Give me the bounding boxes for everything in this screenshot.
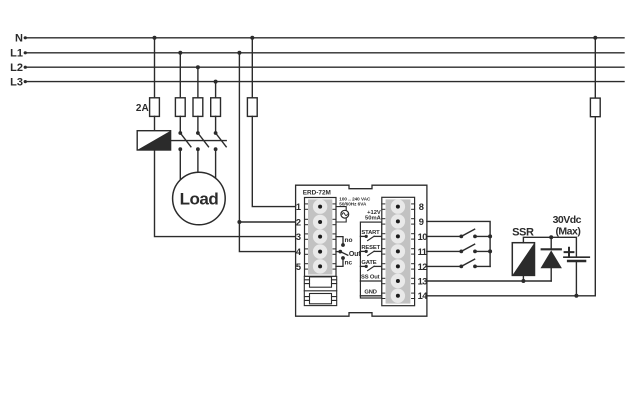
terminal block right xyxy=(382,197,415,305)
fuse F2 xyxy=(175,98,185,117)
node L2 start xyxy=(24,66,27,69)
fuse F6 xyxy=(590,98,600,117)
battery BT1 polarity plus xyxy=(565,248,574,257)
terminal block left xyxy=(305,198,337,277)
svg-text:N: N xyxy=(15,33,23,45)
terminal 9 xyxy=(382,214,415,228)
net L3 wire xyxy=(25,81,625,83)
svg-text:2: 2 xyxy=(296,217,301,227)
node L3 start xyxy=(24,80,27,83)
wire fuse F3 to contact 2 xyxy=(197,116,199,133)
input START switch xyxy=(360,235,381,241)
svg-text:9: 9 xyxy=(419,217,424,227)
svg-text:SS Out: SS Out xyxy=(361,275,380,281)
node junction bus S1 xyxy=(488,234,492,238)
terminal 13 xyxy=(382,274,415,288)
module U1 ERD-72M outline xyxy=(296,185,427,316)
wire L1 to fuse F2 xyxy=(179,53,181,98)
wire fuse F4 to contact 3 xyxy=(215,116,217,133)
wire terminal 9 to switch bus xyxy=(427,221,490,266)
control input box xyxy=(360,222,381,298)
svg-text:10: 10 xyxy=(418,232,428,242)
node junction L2 pole 2 xyxy=(196,65,200,69)
terminal 5 xyxy=(305,259,337,273)
node junction diode top xyxy=(549,235,553,239)
fuse F4 xyxy=(211,98,221,117)
svg-text:11: 11 xyxy=(418,247,427,257)
wire L3 to fuse F4 xyxy=(215,82,217,98)
svg-text:50mA: 50mA xyxy=(365,215,382,221)
terminal 10 xyxy=(382,229,415,243)
relay pole node xyxy=(338,250,342,254)
terminal 11 xyxy=(382,244,415,258)
terminal 4 xyxy=(305,244,337,258)
GND wire xyxy=(360,295,381,297)
contactor K1 linkage xyxy=(171,140,227,142)
svg-text:nc: nc xyxy=(345,259,353,266)
terminal 2 xyxy=(305,215,337,229)
node junction L3 pole 3 xyxy=(214,80,218,84)
input GATE switch xyxy=(360,265,381,271)
svg-text:ERD-72M: ERD-72M xyxy=(303,189,331,196)
output SS Out wire xyxy=(360,280,381,282)
wire fuse F2 to contact 1 xyxy=(179,116,181,133)
svg-text:RESET: RESET xyxy=(361,245,380,251)
svg-text:4: 4 xyxy=(296,247,302,257)
svg-text:L3: L3 xyxy=(10,76,23,88)
node junction L1 pole 1 xyxy=(178,51,182,55)
AC source symbol xyxy=(341,210,349,218)
terminal 3 xyxy=(305,229,337,243)
load M1 xyxy=(173,172,226,225)
relay contact no wire xyxy=(336,237,343,244)
fuse F1 2A xyxy=(150,98,160,117)
wire fuse F5 to terminal 1 xyxy=(252,116,295,206)
node junction terminal 2 branch xyxy=(237,220,241,224)
node junction N to coil feed xyxy=(153,36,157,40)
wire terminal 13 to SSR and diode xyxy=(427,280,551,282)
wire fuse F6 to terminal 14 line xyxy=(594,117,596,296)
DIN rail clip xyxy=(304,276,336,305)
wire branch to terminal 2 xyxy=(239,221,295,223)
terminal 14 xyxy=(382,289,415,303)
net N wire xyxy=(25,37,625,39)
fuse F3 xyxy=(193,98,203,117)
wire N to fuse F1 xyxy=(154,38,156,98)
diode D1 xyxy=(541,237,562,281)
svg-text:Out: Out xyxy=(349,251,361,258)
contactor K1 contact 1 xyxy=(178,131,190,151)
svg-text:12: 12 xyxy=(418,262,428,272)
svg-text:13: 13 xyxy=(418,276,428,286)
svg-text:GATE: GATE xyxy=(361,260,376,266)
switch S2 xyxy=(459,244,490,253)
wire contactor coil to terminal 3 xyxy=(155,150,296,237)
svg-text:SSR: SSR xyxy=(512,226,534,238)
wire L1 tap to terminal 4 xyxy=(239,53,295,252)
svg-text:1: 1 xyxy=(296,202,301,212)
contactor K1 contact 2 xyxy=(196,131,209,151)
wire terminal 10 to switch S1 xyxy=(427,235,461,237)
wire N tap to fuse F5 xyxy=(251,38,253,98)
node junction N right tap xyxy=(593,36,597,40)
net L1 wire xyxy=(25,52,625,54)
svg-text:30Vdc: 30Vdc xyxy=(553,214,582,226)
wire terminal 1 to AC symbol xyxy=(336,207,346,211)
wire terminal 14 to battery and fuse F6 xyxy=(427,295,595,297)
input RESET switch xyxy=(360,250,381,256)
wire terminal 11 to switch S2 xyxy=(427,250,461,252)
node junction L1 tap xyxy=(237,51,241,55)
terminal 12 xyxy=(382,259,415,273)
wire terminal 2 to AC symbol xyxy=(336,218,346,222)
node junction bus S2 xyxy=(488,249,492,253)
terminal 8 xyxy=(382,199,415,213)
relay contact no node xyxy=(341,243,345,247)
svg-text:no: no xyxy=(345,237,353,244)
svg-text:5: 5 xyxy=(296,262,301,272)
relay contact nc wire xyxy=(336,260,343,267)
terminal 1 xyxy=(305,199,337,213)
wire fuse F1 to contactor coil xyxy=(154,116,156,130)
svg-text:L1: L1 xyxy=(10,48,23,60)
node N start xyxy=(24,36,27,39)
svg-text:2A: 2A xyxy=(136,103,149,114)
switch S1 xyxy=(459,229,490,238)
svg-text:L2: L2 xyxy=(10,62,23,74)
net L2 wire xyxy=(25,66,625,68)
svg-text:GND: GND xyxy=(364,290,376,296)
wire terminal 12 to switch S3 xyxy=(427,265,461,267)
svg-text:3: 3 xyxy=(296,232,301,242)
svg-text:8: 8 xyxy=(419,202,424,212)
battery BT1 xyxy=(564,257,589,296)
node L1 start xyxy=(24,51,27,54)
relay contact nc node xyxy=(341,256,345,260)
node junction N tap xyxy=(250,36,254,40)
node junction battery negative xyxy=(574,294,578,298)
wire contact 1 to load xyxy=(179,149,181,184)
wire L2 to fuse F3 xyxy=(197,67,199,98)
contactor K1 contact 3 xyxy=(214,131,226,151)
svg-text:Load: Load xyxy=(180,190,219,209)
node junction SSR bottom xyxy=(521,279,525,283)
svg-text:START: START xyxy=(361,230,380,236)
svg-text:(Max): (Max) xyxy=(555,226,580,238)
wire contact 2 to load xyxy=(197,149,199,184)
fuse F5 xyxy=(247,98,257,117)
wire SSR bottom xyxy=(522,275,524,281)
switch S3 xyxy=(459,259,490,268)
wire SSR top xyxy=(523,237,576,257)
svg-text:50/60Hz 6VA: 50/60Hz 6VA xyxy=(339,201,367,206)
wire contact 3 to load xyxy=(215,149,217,184)
contactor K1 coil xyxy=(137,131,170,150)
wire N right tap to fuse F6 xyxy=(594,38,596,98)
relay lever xyxy=(340,252,348,256)
relay pole wire xyxy=(336,251,339,253)
SSR U2 xyxy=(512,243,534,276)
